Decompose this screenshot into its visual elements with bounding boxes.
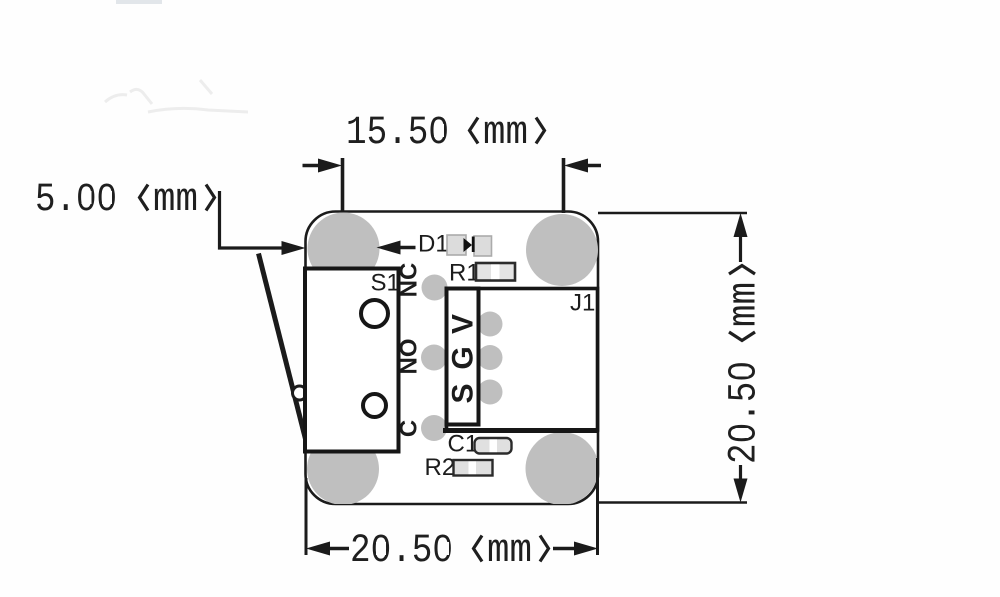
dimension 15.50 top: right arrow <box>564 159 601 173</box>
dimension 20.50 right: bottom extension line <box>598 501 747 504</box>
dimension 20.50 bottom: left extension line <box>305 478 308 555</box>
dimension 20.50 right: dim line upper segment with up arrow <box>734 213 748 262</box>
diode D1 pads <box>447 235 466 255</box>
mounting pad bottom-right <box>526 432 599 505</box>
svg-text:R2: R2 <box>425 454 456 481</box>
svg-text:mm: mm <box>153 178 198 223</box>
dimension 5.00 left: text <box>35 178 215 223</box>
dimension 20.50 bottom: text <box>350 529 549 574</box>
svg-text:D1: D1 <box>418 231 449 258</box>
svg-text:C: C <box>396 420 423 437</box>
zero glyph dot patches <box>82 124 749 555</box>
capacitor C1 body <box>475 438 512 454</box>
resistor R2 body <box>454 460 493 476</box>
connector J1 bottom thick edge <box>443 428 598 433</box>
pad NC <box>422 275 448 301</box>
PCB board outline <box>306 212 599 505</box>
svg-text:NC: NC <box>396 263 423 298</box>
dimension 15.50 top: right extension tick <box>562 158 566 213</box>
switch hole upper <box>361 300 388 327</box>
dimension 5.00 left: opposing arrow <box>377 241 416 255</box>
switch lever arm <box>259 254 307 442</box>
SGV label box <box>447 289 479 425</box>
svg-text:20.50: 20.50 <box>350 529 453 574</box>
dimension 20.50 right: dim line lower segment with down arrow <box>734 465 748 503</box>
svg-text:mm: mm <box>483 111 528 156</box>
connector J1 box <box>447 289 598 431</box>
faint watermark smudges <box>105 0 248 112</box>
svg-text:J1: J1 <box>570 290 595 317</box>
pad C <box>421 415 447 441</box>
pin pad G <box>478 345 503 370</box>
dimension 20.50 right: top extension line <box>598 212 747 215</box>
pin pad S <box>478 380 503 405</box>
lever pivot circle <box>293 386 307 400</box>
mounting pad bottom-left <box>307 433 379 505</box>
diode D1 symbol <box>464 238 473 252</box>
dimension 20.50 bottom: right arrow <box>553 542 598 556</box>
dimension 5.00 left: leader line <box>220 191 298 248</box>
switch S1 body <box>305 269 399 452</box>
switch hole lower <box>363 394 386 417</box>
svg-text:mm: mm <box>487 529 532 574</box>
dimension 20.50 bottom: right extension line <box>596 458 599 555</box>
dimension 15.50 top: left extension tick <box>341 158 345 211</box>
mounting pad top-right <box>526 214 598 286</box>
dimension 20.50 right: rotated text <box>723 266 768 465</box>
dimension 15.50 top: left arrow <box>303 159 343 173</box>
dimension 20.50 bottom: left arrow <box>306 542 349 556</box>
svg-text:V: V <box>447 314 480 334</box>
mounting pad top-left <box>308 213 380 285</box>
svg-text:NO: NO <box>396 339 423 375</box>
dimension 5.00 left: arrow at board edge <box>282 241 306 255</box>
svg-text:G: G <box>447 346 480 369</box>
svg-text:S: S <box>447 383 480 403</box>
pad NO <box>421 345 447 371</box>
pin pad V <box>478 312 503 337</box>
svg-text:15.50: 15.50 <box>346 111 449 156</box>
dimension 15.50 top: text <box>346 111 545 156</box>
resistor R1 body <box>476 263 515 281</box>
svg-text:mm: mm <box>723 282 768 327</box>
